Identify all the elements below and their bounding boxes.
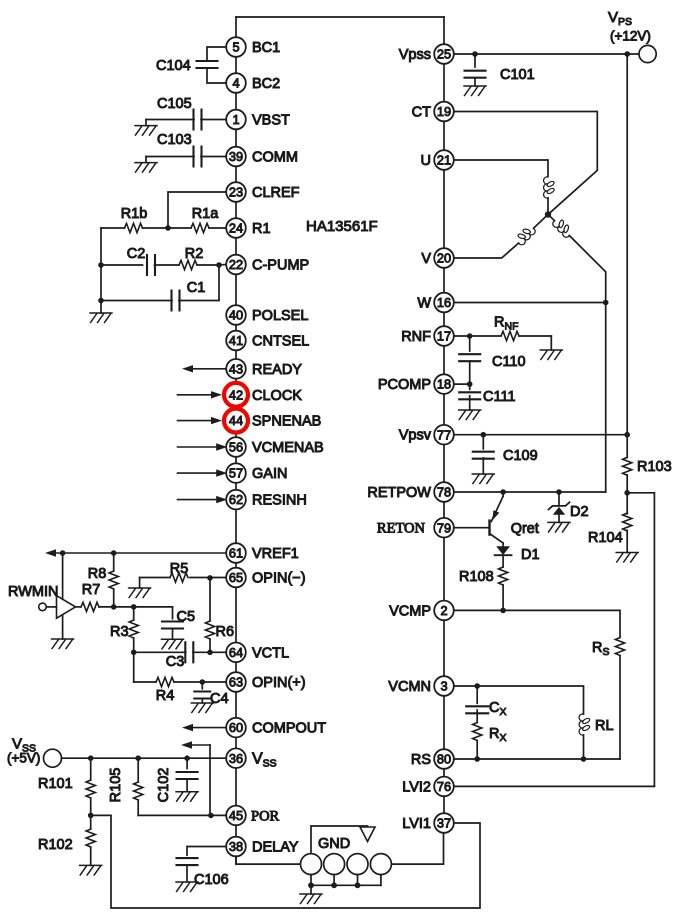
capacitor C109 — [482, 435, 484, 449]
svg-text:C-PUMP: C-PUMP — [252, 258, 309, 274]
arrow RESINH input — [178, 499, 219, 501]
svg-text:64: 64 — [229, 645, 243, 660]
svg-text:COMM: COMM — [252, 150, 298, 166]
svg-text:VCMN: VCMN — [388, 679, 431, 695]
wire GND pad 4 to LVI1 — [392, 833, 444, 864]
svg-text:43: 43 — [229, 361, 243, 376]
node junction C2 row — [98, 262, 104, 268]
node junction C109 top — [481, 432, 487, 438]
node junction C102 — [184, 755, 190, 761]
pin 16 W — [434, 293, 454, 313]
svg-text:C104: C104 — [156, 58, 191, 74]
ground for R5 — [139, 578, 141, 589]
node junction C1 row — [98, 298, 104, 304]
svg-text:R2: R2 — [185, 246, 204, 262]
node junction W — [603, 300, 609, 306]
pin 1 VBST — [226, 110, 246, 130]
svg-text:C110: C110 — [492, 354, 526, 370]
pin 62 RESINH — [226, 490, 246, 510]
wire U phase — [454, 160, 548, 176]
pin 37 LVI1 — [434, 813, 454, 833]
node junction pad 1 — [308, 882, 314, 888]
ground for R102 — [80, 865, 102, 875]
wire right power rail vertical — [626, 54, 628, 435]
capacitor CX — [476, 686, 478, 703]
wire divider tap to LVI2 — [627, 493, 654, 787]
ground for C106 — [186, 865, 188, 882]
svg-text:C105: C105 — [157, 96, 192, 112]
wire C3 junction to VCTL pin — [210, 651, 226, 653]
svg-text:37: 37 — [437, 816, 451, 831]
svg-text:CLOCK: CLOCK — [252, 388, 302, 404]
svg-text:RS: RS — [411, 752, 431, 768]
node junction R8 top — [111, 550, 117, 556]
inductor RL coil — [579, 714, 590, 735]
svg-text:22: 22 — [229, 257, 243, 272]
wire R7 junction to R3/C5 — [114, 606, 173, 608]
svg-text:R105: R105 — [108, 768, 124, 803]
svg-text:R3: R3 — [110, 624, 129, 640]
svg-text:POLSEL: POLSEL — [252, 308, 308, 324]
capacitor C1 — [179, 300, 219, 302]
svg-text:5: 5 — [232, 40, 239, 55]
svg-text:3: 3 — [440, 679, 447, 694]
svg-text:C103: C103 — [157, 132, 192, 148]
svg-text:R102: R102 — [38, 837, 73, 853]
node junction Cx top — [474, 683, 480, 689]
svg-text:42: 42 — [229, 387, 243, 402]
ground for op-amp — [52, 639, 74, 649]
ground for RNF — [550, 336, 552, 350]
svg-text:VCMENAB: VCMENAB — [252, 440, 324, 456]
terminal VPS +12V — [639, 45, 656, 62]
resistor R2 — [155, 264, 180, 266]
svg-text:COMPOUT: COMPOUT — [252, 721, 326, 737]
transistor Qret — [454, 527, 489, 529]
capacitor C5 — [172, 607, 174, 619]
svg-text:VCTL: VCTL — [252, 645, 289, 661]
pin 64 VCTL — [226, 643, 246, 663]
capacitor C110 — [469, 336, 471, 351]
svg-text:C109: C109 — [503, 448, 538, 464]
resistor R7 — [76, 606, 82, 608]
pin 5 BC1 — [226, 37, 246, 57]
pin 77 Vpsv — [434, 425, 454, 445]
svg-text:21: 21 — [437, 153, 451, 168]
svg-text:HA13561F: HA13561F — [306, 218, 378, 235]
svg-text:C106: C106 — [194, 872, 229, 888]
svg-text:VREF1: VREF1 — [252, 546, 299, 562]
svg-text:63: 63 — [229, 675, 243, 690]
svg-text:CT: CT — [412, 105, 431, 121]
wire Vpss to VPS terminal — [454, 53, 639, 55]
svg-text:78: 78 — [437, 485, 451, 500]
wire R101/R102 junction to bottom rail — [91, 815, 480, 908]
svg-text:25: 25 — [437, 47, 451, 62]
svg-text:19: 19 — [437, 104, 451, 119]
resistor R103 — [626, 435, 628, 458]
node junction Qret emitter — [500, 489, 506, 495]
capacitor C4 — [201, 682, 203, 689]
svg-text:1: 1 — [232, 112, 239, 127]
pin 79 — [434, 518, 454, 538]
svg-text:4: 4 — [232, 76, 239, 91]
capacitor C101 — [474, 54, 476, 67]
ground for R1b branch — [90, 313, 112, 323]
node junction right rail top — [624, 51, 630, 57]
resistor R4 — [134, 681, 156, 683]
svg-text:LVI1: LVI1 — [402, 816, 431, 832]
svg-text:RNF: RNF — [401, 329, 431, 345]
svg-text:79: 79 — [437, 520, 451, 535]
wire VCMP row to Rs — [454, 610, 620, 637]
node junction R6 top — [207, 575, 213, 581]
inductor W coil — [551, 216, 574, 239]
wire VSS rail — [62, 757, 227, 759]
wire W phase diagonal — [548, 215, 555, 221]
svg-text:61: 61 — [229, 546, 243, 561]
node junction C101 tap — [472, 51, 478, 57]
svg-text:R104: R104 — [588, 530, 623, 546]
wire LVI2 row — [454, 785, 655, 787]
svg-text:18: 18 — [437, 377, 451, 392]
wire PCOMP row — [454, 383, 470, 385]
svg-text:56: 56 — [229, 440, 243, 455]
capacitor C106 — [187, 847, 226, 856]
node junction R101 — [88, 755, 94, 761]
svg-text:R8: R8 — [88, 566, 107, 582]
resistor R102 — [90, 815, 92, 829]
wire top rail from left pin column to Vpss — [236, 16, 444, 18]
ground for C102 — [186, 779, 188, 792]
svg-text:Vpss: Vpss — [399, 47, 431, 63]
svg-text:R101: R101 — [38, 776, 73, 792]
arrow COMPOUT output — [191, 727, 226, 729]
svg-text:38: 38 — [229, 839, 243, 854]
ground for C109 — [482, 458, 484, 474]
node junction R108 VCMP — [500, 608, 506, 614]
wire DELAY down to GND pads — [236, 856, 300, 864]
node star point — [545, 211, 551, 217]
wire C-PUMP junction down to C1 — [218, 265, 220, 301]
ground for R104 — [616, 553, 638, 563]
pin 23 CLREF — [226, 182, 246, 202]
resistor RS — [615, 638, 624, 656]
ground for C111 — [469, 396, 471, 410]
pin 19 CT — [434, 102, 454, 122]
pin 45 — [226, 806, 246, 826]
pin 25 Vpss — [434, 44, 454, 64]
node junction D2 top — [556, 489, 562, 495]
node junction C-PUMP R2 C1 — [216, 262, 222, 268]
svg-text:CNTSEL: CNTSEL — [252, 334, 309, 350]
ground for C103 — [145, 157, 147, 163]
svg-text:OPIN(+): OPIN(+) — [252, 675, 306, 691]
wire left branch vertical R1b C2 C1 — [100, 228, 102, 313]
svg-text:GAIN: GAIN — [252, 466, 287, 482]
svg-text:36: 36 — [229, 751, 243, 766]
svg-text:D2: D2 — [570, 504, 589, 520]
pin 21 U — [434, 150, 454, 170]
svg-text:60: 60 — [229, 720, 243, 735]
node junction pad 3 — [355, 882, 361, 888]
pin 2 VCMP — [434, 601, 454, 621]
wire OPIN- pin to R5 — [210, 577, 226, 579]
svg-text:C5: C5 — [177, 609, 196, 625]
svg-text:C111: C111 — [483, 389, 516, 405]
arrow READY output — [191, 368, 226, 370]
resistor RX — [476, 710, 478, 723]
svg-text:R1: R1 — [252, 221, 271, 237]
ground for C4 — [201, 699, 203, 704]
wire R3 bottom to R4 row — [133, 652, 135, 682]
svg-text:RETON: RETON — [377, 521, 426, 537]
pin 43 READY — [226, 359, 246, 379]
svg-text:POR: POR — [251, 809, 280, 825]
wire VREF1 rail with output arrow — [54, 552, 226, 554]
pin 42 CLOCK — [226, 385, 246, 405]
wire left pin column vertical — [235, 17, 237, 864]
svg-text:R6: R6 — [216, 624, 235, 640]
svg-text:41: 41 — [229, 333, 243, 348]
resistor R108 — [502, 555, 504, 567]
svg-text:D1: D1 — [521, 547, 540, 563]
wire POR arrow vertical — [209, 745, 211, 815]
svg-text:READY: READY — [252, 362, 302, 378]
pin 80 RS — [434, 749, 454, 769]
svg-text:C2: C2 — [127, 246, 146, 262]
svg-text:44: 44 — [229, 413, 243, 428]
svg-text:RETPOW: RETPOW — [367, 485, 431, 501]
red highlight ring pin 42 CLOCK — [224, 383, 248, 407]
node junction R3 top — [131, 604, 137, 610]
ground for D2 — [548, 522, 570, 532]
svg-text:C102: C102 — [156, 768, 172, 803]
pin 61 VREF1 — [226, 543, 246, 563]
ground for C105 — [145, 120, 147, 126]
wire W row — [454, 302, 606, 304]
node junction RL RS row — [581, 756, 587, 762]
svg-text:R7: R7 — [82, 582, 101, 598]
pin 4 BC2 — [226, 73, 246, 93]
pin 63 OPIN(+) — [226, 672, 246, 692]
node junction R1a R1b CLREF — [165, 225, 171, 231]
pin 39 COMM — [226, 147, 246, 167]
ground for C101 — [474, 78, 476, 86]
wire RNF row — [454, 335, 470, 337]
svg-text:C4: C4 — [210, 691, 229, 707]
svg-text:2: 2 — [440, 603, 447, 618]
svg-text:GND: GND — [318, 836, 350, 852]
svg-text:57: 57 — [229, 466, 243, 481]
svg-text:20: 20 — [437, 251, 451, 266]
resistor R1b — [143, 227, 169, 229]
resistor RNF — [470, 335, 501, 337]
resistor R6 — [209, 578, 211, 622]
svg-text:39: 39 — [229, 149, 243, 164]
pin 18 PCOMP — [434, 374, 454, 394]
wire CT to star point — [454, 112, 598, 215]
svg-text:45: 45 — [229, 808, 243, 823]
pin 65 OPIN(&#8722;) — [226, 568, 246, 588]
svg-text:RWMIN: RWMIN — [8, 584, 58, 600]
red highlight connector — [231, 404, 242, 413]
wire GND pad 1 to open triangle — [311, 826, 368, 853]
pin 24 R1 — [226, 218, 246, 238]
op-amp buffer RWMIN — [62, 553, 64, 599]
svg-text:R1a: R1a — [192, 206, 220, 222]
open triangle ground marker — [360, 827, 375, 842]
svg-text:(+12V): (+12V) — [610, 29, 651, 44]
wire VCMN row to RL — [454, 686, 584, 714]
svg-text:BC1: BC1 — [252, 40, 280, 56]
capacitor C2 — [101, 264, 143, 266]
pin 3 VCMN — [434, 676, 454, 696]
inductor U coil — [544, 177, 555, 198]
capacitor C105 — [201, 119, 226, 121]
pin 60 COMPOUT — [226, 718, 246, 738]
node junction C110 top — [467, 333, 473, 339]
node junction pad 2 — [331, 882, 337, 888]
node junction POR arrow — [208, 813, 214, 819]
node junction op-amp supply — [60, 550, 66, 556]
svg-text:16: 16 — [437, 295, 451, 310]
resistor R1a — [209, 227, 226, 229]
svg-text:77: 77 — [437, 427, 451, 442]
svg-text:65: 65 — [229, 570, 243, 585]
node junction power rail Vpsv — [624, 432, 630, 438]
pin 40 POLSEL — [226, 305, 246, 325]
pin 57 GAIN — [226, 463, 246, 483]
red highlight ring pin 44 SPNENAB — [224, 409, 248, 433]
svg-text:LVI2: LVI2 — [402, 779, 431, 795]
arrow SPNENAB input — [178, 420, 214, 422]
svg-text:17: 17 — [437, 329, 451, 344]
resistor R3 — [133, 607, 135, 620]
svg-text:DELAY: DELAY — [252, 840, 299, 856]
svg-text:OPIN(−): OPIN(−) — [252, 571, 306, 587]
wire V phase — [454, 243, 519, 258]
svg-text:R5: R5 — [170, 561, 189, 577]
svg-text:CLREF: CLREF — [252, 185, 300, 201]
svg-text:C1: C1 — [187, 280, 206, 296]
svg-text:62: 62 — [229, 492, 243, 507]
svg-text:PCOMP: PCOMP — [378, 377, 431, 393]
svg-text:76: 76 — [437, 779, 451, 794]
node junction C3 R6 VCTL — [207, 650, 213, 656]
terminal RWMIN input — [39, 603, 47, 611]
svg-text:R103: R103 — [637, 459, 672, 475]
wire RETPOW row — [454, 491, 606, 493]
zener diode D2 — [558, 492, 560, 506]
pin 17 RNF — [434, 326, 454, 346]
node junction R7 R8 — [111, 604, 117, 610]
resistor R101 — [90, 758, 92, 780]
GND pad circles — [301, 854, 322, 875]
svg-text:U: U — [421, 153, 431, 169]
node junction R101 R102 — [88, 813, 94, 819]
pin 44 SPNENAB — [226, 411, 246, 431]
svg-text:R1b: R1b — [121, 206, 148, 222]
wire POR row — [138, 814, 226, 816]
arrow GAIN input — [178, 472, 219, 474]
capacitor C111 — [469, 384, 471, 389]
pin 36 — [226, 748, 246, 768]
svg-text:SPNENAB: SPNENAB — [252, 414, 321, 430]
svg-text:Vpsv: Vpsv — [399, 428, 432, 444]
arrow POR output — [190, 744, 210, 746]
svg-text:BC2: BC2 — [252, 76, 280, 92]
pin 38 DELAY — [226, 837, 246, 857]
svg-text:Qret: Qret — [511, 521, 539, 537]
pin 76 LVI2 — [434, 777, 454, 797]
capacitor C3 — [134, 651, 186, 653]
arrow CLOCK input — [178, 394, 214, 396]
svg-text:W: W — [417, 296, 431, 312]
svg-text:C101: C101 — [500, 67, 535, 83]
svg-text:V: V — [421, 251, 431, 267]
node junction R3 C3 R4 — [131, 650, 137, 656]
diode D1 — [502, 543, 504, 546]
svg-text:VCMP: VCMP — [389, 603, 431, 619]
node junction R103 R104 LVI2 — [624, 490, 630, 496]
node junction R4 C4 OPIN+ — [200, 679, 206, 685]
svg-text:23: 23 — [229, 185, 243, 200]
svg-text:C3: C3 — [166, 654, 185, 670]
resistor R5 — [190, 577, 210, 579]
wire W junction down to RETPOW — [605, 303, 607, 493]
wire RS row — [454, 758, 620, 760]
inductor V coil — [514, 223, 537, 246]
svg-text:80: 80 — [437, 752, 451, 767]
node junction Rx RS row — [474, 756, 480, 762]
svg-text:R4: R4 — [156, 688, 175, 704]
svg-text:24: 24 — [229, 221, 243, 236]
pin 41 CNTSEL — [226, 331, 246, 351]
wire CLREF to R1a-R1b junction — [168, 192, 226, 228]
ground for GND pads — [310, 885, 312, 894]
svg-text:RESINH: RESINH — [252, 493, 307, 509]
arrow VCMENAB input — [178, 446, 219, 448]
capacitor C104 — [207, 47, 226, 61]
resistor R105 (vertical label) — [137, 758, 139, 782]
resistor R104 — [626, 493, 628, 514]
svg-text:(+5V): (+5V) — [7, 751, 40, 766]
node junction R105 — [135, 755, 141, 761]
wire Vpsv row to power rail — [454, 434, 627, 436]
svg-text:R108: R108 — [459, 569, 494, 585]
resistor R8 — [109, 571, 118, 589]
capacitor C103 — [201, 156, 226, 158]
node junction C111 top — [467, 381, 473, 387]
wire GND pads bottom bus — [310, 875, 312, 886]
svg-text:VBST: VBST — [252, 113, 290, 129]
pin 78 RETPOW — [434, 482, 454, 502]
pin 22 C-PUMP — [226, 255, 246, 275]
pin 56 VCMENAB — [226, 437, 246, 457]
wire right pin column vertical — [443, 17, 445, 823]
capacitor C102 (vertical label) — [186, 758, 188, 768]
terminal VSS +5V — [44, 749, 62, 767]
svg-text:RL: RL — [595, 718, 614, 734]
svg-text:40: 40 — [229, 308, 243, 323]
pin 20 V — [434, 248, 454, 268]
ground for C5 — [172, 629, 174, 640]
